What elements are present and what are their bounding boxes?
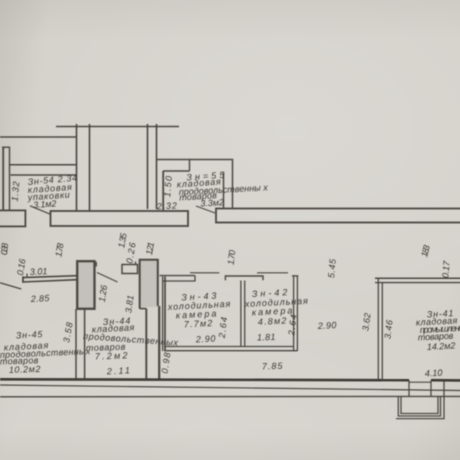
svg-text:5.45: 5.45 bbox=[326, 258, 338, 279]
svg-text:2.90: 2.90 bbox=[195, 333, 216, 344]
svg-text:1.21: 1.21 bbox=[144, 241, 156, 256]
svg-text:2.64: 2.64 bbox=[217, 316, 230, 339]
svg-text:3.1м2: 3.1м2 bbox=[33, 198, 57, 210]
svg-text:1.83: 1.83 bbox=[419, 244, 432, 258]
svg-text:Зн-45: Зн-45 bbox=[16, 329, 44, 340]
svg-text:1.50: 1.50 bbox=[162, 176, 174, 198]
svg-text:3.3м2: 3.3м2 bbox=[200, 197, 224, 208]
svg-text:7.85: 7.85 bbox=[262, 361, 284, 372]
svg-text:3.58: 3.58 bbox=[61, 321, 74, 343]
svg-text:7.7м2: 7.7м2 bbox=[184, 318, 213, 329]
svg-text:0.38: 0.38 bbox=[0, 243, 10, 256]
svg-text:2.85: 2.85 bbox=[30, 293, 51, 304]
svg-text:14.2м2: 14.2м2 bbox=[427, 341, 456, 352]
svg-text:0.98: 0.98 bbox=[160, 352, 173, 374]
svg-text:1.26: 1.26 bbox=[97, 284, 109, 302]
svg-text:0.16: 0.16 bbox=[15, 258, 28, 276]
svg-text:1.81: 1.81 bbox=[257, 332, 276, 343]
svg-text:4.8м2: 4.8м2 bbox=[258, 316, 287, 327]
svg-text:0.17: 0.17 bbox=[440, 260, 452, 279]
svg-text:3.62: 3.62 bbox=[360, 312, 372, 331]
svg-text:1.78: 1.78 bbox=[53, 242, 65, 258]
svg-text:4.10: 4.10 bbox=[425, 368, 443, 379]
svg-text:10.2м2: 10.2м2 bbox=[9, 364, 41, 375]
svg-text:2.90: 2.90 bbox=[317, 320, 337, 331]
svg-text:1.32: 1.32 bbox=[10, 181, 22, 202]
svg-text:3.81: 3.81 bbox=[123, 294, 135, 313]
svg-text:7.2м2: 7.2м2 bbox=[95, 350, 128, 361]
svg-text:2.32: 2.32 bbox=[156, 200, 177, 211]
svg-text:3.01: 3.01 bbox=[30, 266, 48, 277]
svg-text:3.46: 3.46 bbox=[382, 319, 394, 339]
svg-text:1.70: 1.70 bbox=[226, 249, 238, 265]
svg-text:2.11: 2.11 bbox=[106, 365, 130, 376]
